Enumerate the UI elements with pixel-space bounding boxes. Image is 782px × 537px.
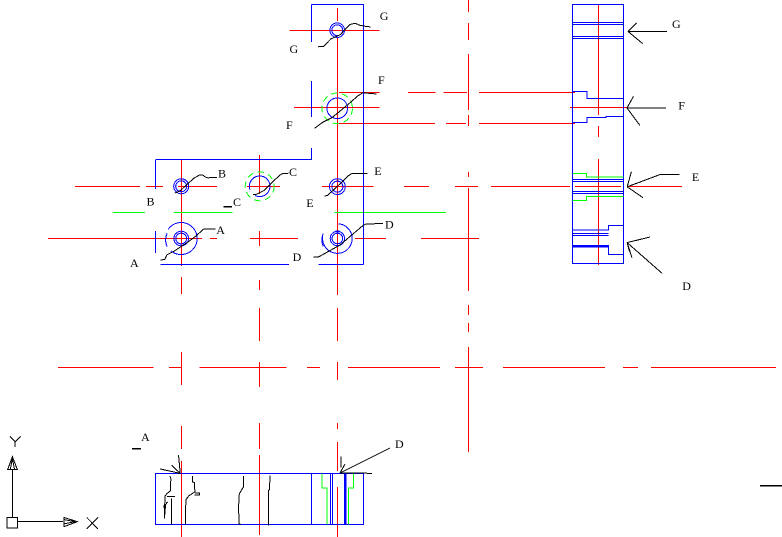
hidden circle around hole F [322, 93, 353, 124]
centerline horizontal F upper (y=92) [339, 92, 575, 94]
break line 1 [165, 476, 171, 514]
bottom view thick line [344, 474, 347, 525]
hole G outer circle [330, 23, 345, 38]
svg-text:E: E [306, 196, 313, 210]
hole D outer circle [330, 231, 344, 245]
break line 1b [164, 497, 175, 525]
centerline vertical side view (x=598) [598, 5, 600, 265]
break line 2 [186, 476, 195, 525]
centerline horizontal F lower (y=123) [339, 123, 575, 125]
svg-text:B: B [147, 194, 155, 208]
hole B outer circle [174, 179, 189, 194]
svg-text:F: F [678, 98, 685, 112]
svg-text:D: D [395, 437, 404, 451]
side hole D lines [573, 233, 609, 235]
front view top edge [312, 4, 365, 6]
hole D counterbore arc [323, 224, 353, 254]
hole D tick [336, 231, 340, 233]
side hole G lines [573, 21, 624, 23]
front view left edge segments [311, 5, 313, 161]
UCS Y axis [11, 470, 13, 518]
label C underscore [224, 206, 233, 208]
svg-text:E: E [374, 164, 381, 178]
hole A inner circle [176, 233, 187, 244]
centerline vertical through holes G F E D (x=337) [337, 8, 339, 537]
bottom view outline [156, 474, 364, 525]
arrow A bottom [160, 455, 180, 473]
hole E outer circle [330, 179, 346, 195]
UCS origin square [7, 518, 18, 529]
centerline vertical through hole C (x=259) [259, 155, 261, 535]
break line 2b [195, 493, 200, 495]
front view bottom edge [161, 264, 364, 266]
svg-text:B: B [218, 166, 226, 180]
svg-text:A: A [141, 430, 150, 444]
leader G [318, 23, 371, 47]
hole A outer circle [174, 231, 189, 246]
svg-text:C: C [289, 165, 297, 179]
side view outline [573, 5, 624, 264]
svg-text:G: G [380, 9, 389, 23]
UCS X arrowhead [64, 517, 78, 526]
svg-text:G: G [290, 42, 299, 56]
left leg left edge segments [155, 160, 157, 254]
hole G inner circle [332, 25, 343, 36]
break line 3 [239, 476, 244, 525]
arrow D bottom [340, 448, 390, 473]
break line 4 [269, 476, 270, 526]
leader A [161, 229, 216, 260]
front view right edge [363, 5, 365, 265]
bottom view hole lines [330, 474, 332, 525]
centerline horizontal holes B C E (y=186) [75, 186, 682, 188]
leader B [175, 175, 217, 193]
bottom view hidden right [349, 474, 354, 525]
UCS label X [87, 517, 98, 529]
leader E [325, 174, 368, 196]
centerline horizontal hole G (y=30) [290, 30, 380, 32]
bottom view hidden left [322, 474, 327, 525]
label A bottom underscore [132, 448, 141, 450]
hole E inner circle [332, 181, 343, 192]
svg-text:A: A [130, 256, 139, 270]
svg-text:D: D [682, 279, 691, 293]
hole C circle [249, 176, 270, 197]
centerline horizontal long (y=367) [58, 367, 776, 369]
svg-text:F: F [378, 73, 385, 87]
hole F circle [327, 98, 348, 119]
side hole D thick line [573, 245, 610, 248]
hole A counterbore arc [168, 223, 197, 255]
svg-text:D: D [385, 218, 394, 232]
hole D inner circle [332, 233, 343, 244]
hole A side arc [166, 233, 167, 246]
leader F [315, 93, 377, 129]
hidden circle around hole C [245, 172, 274, 201]
svg-text:E: E [692, 170, 699, 184]
side hole E lines [573, 179, 624, 181]
svg-text:D: D [293, 250, 302, 264]
arrow F side [627, 97, 666, 126]
UCS label Y [10, 436, 21, 447]
hole B inner circle [176, 181, 187, 192]
svg-text:G: G [672, 17, 681, 31]
arrow G side [628, 23, 667, 44]
side hole F step bottom [573, 117, 624, 123]
UCS X axis [17, 521, 63, 523]
side hole E hidden top [573, 174, 624, 178]
bottom view divider [311, 474, 313, 525]
centerline horizontal hole F (y=108) [294, 107, 627, 109]
svg-text:A: A [216, 223, 225, 237]
UCS Y arrowhead [8, 457, 18, 470]
leader D front [314, 224, 383, 258]
hole D side arc [322, 233, 323, 246]
svg-text:F: F [286, 118, 293, 132]
left leg top edge [156, 159, 312, 161]
centerline vertical through holes B A (x=181) [181, 160, 183, 537]
centerline horizontal holes A D (y=238) [48, 238, 479, 240]
side hole F step top [573, 92, 624, 99]
hidden line horizontal (y=212) [113, 212, 446, 214]
side hole D step bottom [609, 248, 624, 255]
arrow E side [627, 172, 679, 198]
side hole D step top [573, 226, 624, 231]
side hole E hidden bottom [573, 197, 624, 201]
arrow D side [627, 237, 662, 273]
stray line right edge [760, 485, 782, 487]
leader C [253, 173, 289, 194]
centerline vertical between views (x=468) [468, 0, 470, 452]
svg-text:C: C [233, 195, 241, 209]
